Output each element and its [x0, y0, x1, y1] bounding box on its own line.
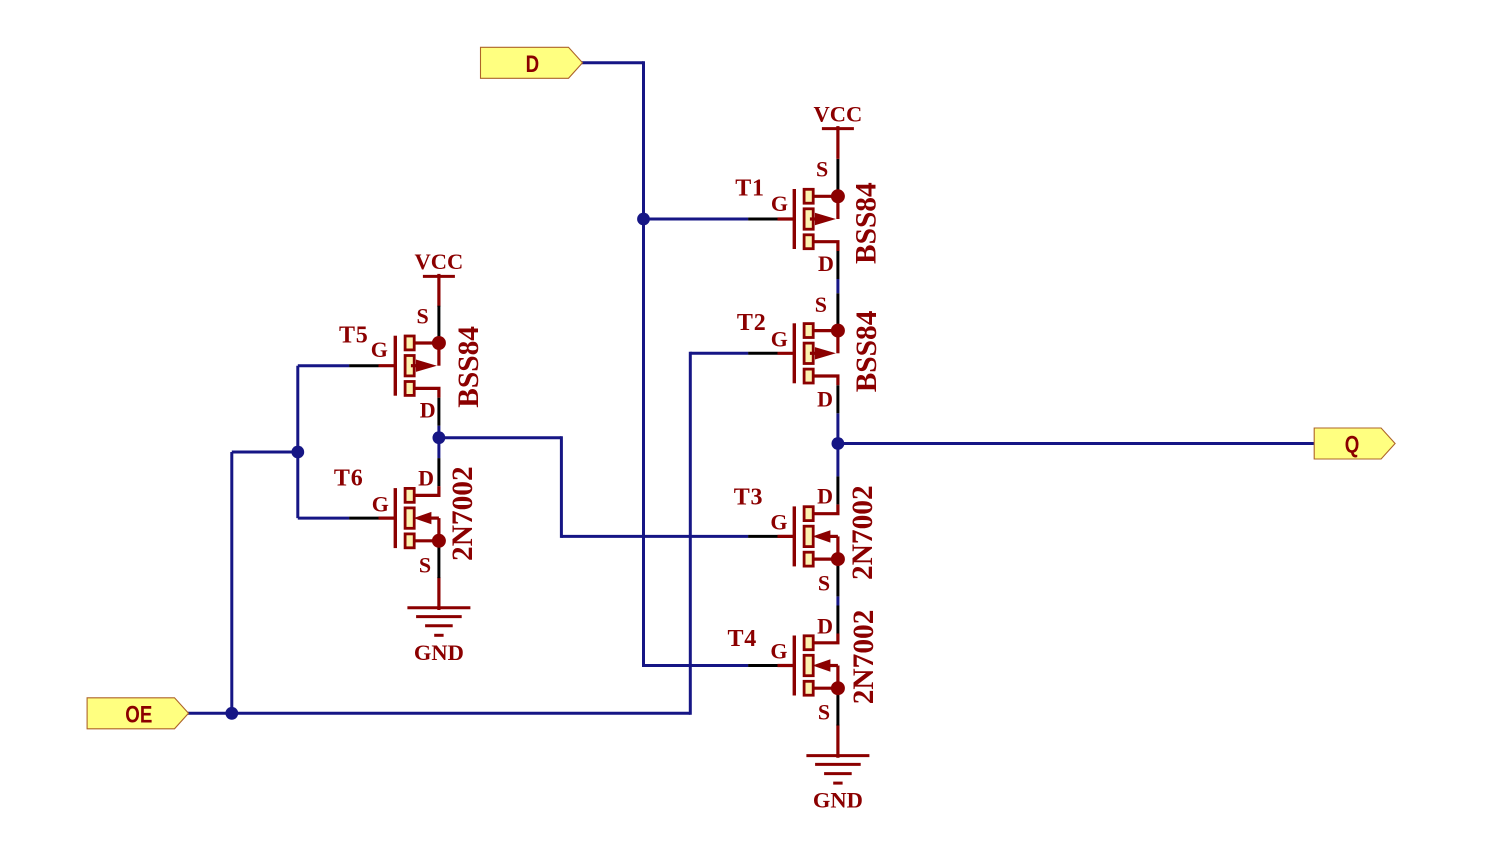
wire Q node to T3 drain [836, 444, 839, 477]
T6 gate bar [394, 488, 397, 548]
wire T5/T6 gate vertical [296, 366, 299, 518]
T4 channel segments [804, 636, 813, 650]
T1 bulk junction dot [831, 189, 845, 203]
svg-text:BSS84: BSS84 [851, 310, 883, 392]
VCC bar and stem [822, 127, 854, 130]
T2 channel segments [804, 324, 813, 338]
junction inverter gate net [291, 446, 304, 459]
svg-text:S: S [417, 304, 429, 329]
wire Q node to Q flag [838, 442, 1314, 445]
svg-text:S: S [815, 292, 827, 317]
T5 gate bar [394, 336, 397, 396]
svg-text:S: S [818, 570, 830, 595]
junction inverter output node [433, 431, 446, 444]
transistor T3 (2N7002 N-MOSFET) [734, 476, 880, 596]
svg-text:VCC: VCC [415, 249, 464, 274]
T2 gate pin G [748, 352, 777, 355]
junction D net / T1 gate [637, 213, 650, 226]
svg-text:2N7002: 2N7002 [447, 466, 479, 561]
T6 bulk connection and arrow [414, 539, 439, 542]
wire T6 gate stub [298, 517, 349, 520]
GND stem and bars [836, 725, 839, 758]
power symbol GND [407, 577, 470, 665]
svg-text:T1: T1 [735, 176, 765, 202]
transistor T5 (BSS84 P-MOSFET) [339, 304, 485, 426]
svg-text:VCC: VCC [814, 101, 863, 126]
power symbol VCC [415, 249, 464, 307]
wire T5 gate stub [298, 364, 349, 367]
svg-text:D: D [817, 387, 833, 412]
T2 bulk connection and arrow [813, 329, 838, 332]
T4 drain pin D [813, 634, 838, 643]
T3 bulk junction dot [831, 552, 845, 566]
T5 gate pin G [349, 364, 378, 367]
T3 gate pin G [748, 535, 777, 538]
svg-text:D: D [526, 51, 540, 78]
wire OE flag to T2 vertical [186, 712, 690, 715]
svg-text:GND: GND [813, 788, 863, 813]
svg-text:D: D [818, 251, 834, 276]
svg-text:G: G [771, 191, 788, 216]
T1 source pin S [836, 159, 839, 194]
D flag body [481, 47, 583, 78]
T4 gate pin G [748, 664, 777, 667]
T5 bulk junction dot [432, 336, 446, 350]
wire inverter output to T3 gate (horizontal) [439, 436, 562, 439]
T6 channel segments [405, 488, 414, 502]
T3 gate bar [793, 506, 796, 566]
svg-text:GND: GND [414, 640, 464, 665]
svg-text:S: S [419, 552, 431, 577]
T4 bulk junction dot [831, 681, 845, 695]
transistor T4 (2N7002 N-MOSFET) [728, 606, 881, 726]
Q flag body [1314, 428, 1395, 459]
svg-text:D: D [817, 484, 833, 509]
wire T3 source to T4 drain [836, 596, 839, 605]
VCC bar and stem [423, 275, 455, 278]
wire T2 gate from OE vertical [690, 352, 748, 355]
wire OE branch horizontal to inverter gates [232, 451, 298, 454]
T5 drain pin D [414, 388, 439, 397]
svg-text:G: G [771, 327, 788, 352]
T2 bulk junction dot [831, 324, 845, 338]
GND stem and bars [437, 577, 440, 610]
T4 gate bar [793, 636, 796, 696]
wire D flag to vertical [580, 61, 644, 64]
svg-text:G: G [770, 510, 787, 535]
wire T1 drain to T2 source [836, 279, 839, 293]
svg-text:D: D [420, 397, 436, 422]
T6 gate pin G [349, 517, 378, 520]
wire OE branch vertical [230, 452, 233, 713]
wire T1 gate branch [644, 218, 749, 221]
svg-text:T4: T4 [728, 626, 758, 652]
T1 gate bar [793, 189, 796, 249]
wire T5 drain to T6 drain [437, 426, 440, 458]
T3 channel segments [804, 507, 813, 521]
svg-text:OE: OE [125, 701, 152, 728]
T2 gate bar [793, 323, 796, 383]
T3 source pin S [836, 561, 839, 596]
T3 drain pin D [813, 504, 838, 513]
T1 gate pin G [748, 218, 777, 221]
svg-text:BSS84: BSS84 [850, 182, 882, 264]
wire D vertical down to T4 gate row [642, 61, 645, 667]
power symbol VCC [814, 101, 863, 158]
T2 drain pin D [813, 376, 838, 385]
net flag OE [87, 698, 188, 729]
wire inverter output to T3 gate (vertical) [560, 436, 563, 538]
svg-text:S: S [816, 157, 828, 182]
svg-text:D: D [418, 466, 434, 491]
svg-text:G: G [371, 337, 388, 362]
net flag D [481, 47, 583, 78]
T5 bulk connection and arrow [414, 341, 439, 344]
T1 drain pin D [813, 242, 838, 251]
T1 channel segments [804, 189, 813, 203]
T6 source pin S [437, 543, 440, 578]
T6 bulk junction dot [432, 534, 446, 548]
T1 bulk connection and arrow [813, 195, 838, 198]
transistor T2 (BSS84 P-MOSFET) [737, 292, 883, 413]
wire T4 gate from D vertical [644, 664, 749, 667]
T4 bulk connection and arrow [813, 687, 838, 690]
wire T2 drain to Q node [836, 413, 839, 443]
svg-text:T2: T2 [737, 310, 767, 336]
svg-text:2N7002: 2N7002 [847, 485, 879, 580]
svg-text:2N7002: 2N7002 [848, 610, 880, 705]
T3 bulk connection and arrow [813, 557, 838, 560]
junction Q node [832, 437, 845, 450]
svg-text:T5: T5 [339, 322, 369, 348]
svg-text:S: S [818, 699, 830, 724]
T4 source pin S [836, 691, 839, 726]
transistor T1 (BSS84 P-MOSFET) [735, 157, 882, 279]
svg-text:BSS84: BSS84 [453, 326, 485, 408]
wire OE vertical up to T2 gate [689, 352, 692, 715]
T6 drain pin D [414, 486, 439, 495]
T2 source pin S [836, 293, 839, 328]
svg-text:G: G [770, 639, 787, 664]
net flag Q [1314, 428, 1395, 459]
svg-text:G: G [372, 492, 389, 517]
OE flag body [87, 698, 188, 729]
svg-text:D: D [817, 614, 833, 639]
power symbol GND [806, 725, 869, 813]
transistor T6 (2N7002 N-MOSFET) [334, 458, 479, 578]
svg-text:T3: T3 [734, 485, 764, 511]
junction OE branch [225, 707, 238, 720]
svg-text:T6: T6 [334, 466, 364, 492]
svg-text:Q: Q [1345, 432, 1360, 459]
T5 source pin S [437, 306, 440, 341]
wire T3 gate from inverter output [561, 535, 748, 538]
T5 channel segments [405, 336, 414, 350]
